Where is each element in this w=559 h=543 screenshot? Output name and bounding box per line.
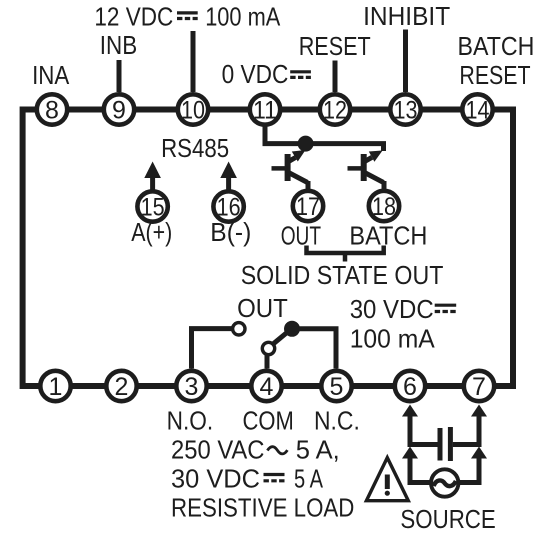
svg-text:1: 1: [49, 373, 63, 401]
svg-text:RESISTIVE LOAD: RESISTIVE LOAD: [171, 493, 354, 523]
svg-text:RESET: RESET: [299, 31, 371, 61]
transistor Q1 (solid state OUT, terminal 17): [272, 150, 309, 190]
svg-text:RS485: RS485: [161, 133, 229, 163]
wire: arrow up to capacitor branch left: [402, 447, 418, 486]
terminal 6: [395, 371, 425, 401]
terminal 1: [40, 371, 70, 401]
terminal 18: [369, 191, 399, 221]
svg-text:18: 18: [372, 193, 396, 221]
wire: terminal 3 to N.O. contact: [192, 329, 232, 369]
svg-text:10: 10: [181, 97, 205, 125]
svg-text:30 VDC: 30 VDC: [171, 464, 260, 494]
terminal 13: [390, 94, 420, 124]
terminal 7: [464, 371, 494, 401]
svg-text:BATCH: BATCH: [349, 221, 427, 251]
terminal 15: [137, 191, 167, 221]
bracket: solid state outputs group: [307, 246, 384, 262]
junction: dot on 0 VDC rail: [298, 136, 314, 152]
terminal 3: [176, 371, 206, 401]
symbol: DC (solid over dashed) for 12 VDC: [177, 13, 198, 19]
svg-text:INHIBIT: INHIBIT: [363, 1, 450, 31]
svg-text:9: 9: [112, 97, 126, 125]
svg-text:N.C.: N.C.: [314, 406, 360, 436]
source G1 (AC source circle): [431, 469, 458, 496]
svg-text:100 mA: 100 mA: [205, 1, 281, 31]
capacitor C1 right plate: [448, 427, 453, 461]
warning triangle: [366, 458, 408, 501]
svg-text:A(+): A(+): [131, 217, 172, 247]
terminal 8: [37, 94, 67, 124]
terminal 14: [462, 94, 492, 124]
svg-text:INB: INB: [100, 30, 137, 60]
symbol: DC (solid over dashed) for 30 VDC: [435, 305, 457, 311]
svg-text:OUT: OUT: [237, 293, 288, 323]
wire: stub terminal 10 to 12 VDC: [191, 31, 196, 92]
svg-text:100 mA: 100 mA: [350, 324, 436, 354]
svg-text:SOLID STATE OUT: SOLID STATE OUT: [241, 260, 444, 290]
svg-text:B(-): B(-): [210, 217, 251, 247]
label: 12 VDC supply value: [94, 1, 280, 31]
svg-text:OUT: OUT: [281, 221, 321, 251]
svg-text:3: 3: [185, 373, 199, 401]
svg-text:8: 8: [45, 97, 59, 125]
svg-text:13: 13: [394, 97, 418, 125]
svg-text:BATCH: BATCH: [458, 31, 535, 61]
svg-text:11: 11: [253, 97, 277, 125]
svg-text:5 A,: 5 A,: [296, 435, 340, 465]
svg-text:RESET: RESET: [459, 60, 530, 90]
relay lever arm: [273, 330, 290, 344]
terminal 16: [213, 191, 243, 221]
wire: stub terminal 13 to INHIBIT: [403, 30, 408, 93]
terminal 4: [251, 371, 281, 401]
svg-text:250 VAC: 250 VAC: [171, 435, 265, 465]
wire: capacitor branch left: [410, 442, 438, 447]
terminal 10: [178, 94, 208, 124]
contact: N.O. open circle: [233, 323, 245, 335]
contact: N.C. filled dot: [284, 321, 300, 337]
wire: capacitor branch right: [453, 442, 479, 447]
contact: COM pivot open circle: [262, 342, 274, 354]
svg-text:5 A: 5 A: [294, 464, 324, 494]
wire: device outline box: [23, 110, 513, 387]
wire: 0 VDC rail from terminal 11 to transistors: [265, 125, 384, 151]
svg-text:INA: INA: [32, 60, 70, 90]
svg-text:COM: COM: [243, 406, 294, 436]
terminal 2: [106, 371, 136, 401]
symbol: DC (solid over dashed) for 30 VDC 5 A: [264, 475, 285, 481]
svg-text:30 VDC: 30 VDC: [350, 294, 434, 324]
capacitor C1 left plate: [438, 428, 443, 461]
svg-text:12 VDC: 12 VDC: [94, 1, 173, 31]
label: BATCH RESET: [458, 31, 535, 90]
terminal 17: [293, 191, 323, 221]
svg-text:17: 17: [296, 193, 320, 221]
wire: N.C. contact to terminal 5: [292, 329, 336, 369]
wire: stub terminal 9 to INB: [117, 60, 122, 92]
svg-text:N.O.: N.O.: [167, 406, 214, 436]
wire: source branch left: [410, 480, 432, 485]
transistor Q2 (solid state BATCH, terminal 18): [348, 151, 385, 191]
terminal 9: [104, 94, 134, 124]
symbol: AC tilde for 250 VAC: [267, 447, 287, 454]
svg-text:SOURCE: SOURCE: [400, 504, 495, 534]
wire: arrow from terminal 15 (RS485 A): [144, 162, 161, 191]
wire: arrow from terminal 16 (RS485 B): [220, 162, 237, 191]
svg-text:6: 6: [403, 373, 417, 401]
svg-text:4: 4: [260, 373, 274, 401]
wire: arrow up to capacitor branch right: [471, 447, 487, 486]
svg-text:2: 2: [115, 373, 129, 401]
wire: source branch right: [458, 480, 480, 485]
svg-text:12: 12: [323, 97, 347, 125]
wire: arrow into terminal 7: [471, 405, 487, 448]
svg-text:14: 14: [466, 97, 490, 125]
svg-text:7: 7: [472, 373, 486, 401]
wire: terminal 4 to common pivot: [265, 355, 270, 369]
terminal 5: [321, 371, 351, 401]
symbol: DC (solid over dashed) for 0 VDC: [290, 72, 311, 78]
wire: arrow into terminal 6: [402, 405, 418, 448]
terminal 11: [250, 94, 280, 124]
svg-text:5: 5: [330, 373, 344, 401]
wire: stub terminal 12 to RESET: [333, 61, 338, 93]
terminal 12: [320, 94, 350, 124]
svg-text:0 VDC: 0 VDC: [222, 59, 289, 89]
